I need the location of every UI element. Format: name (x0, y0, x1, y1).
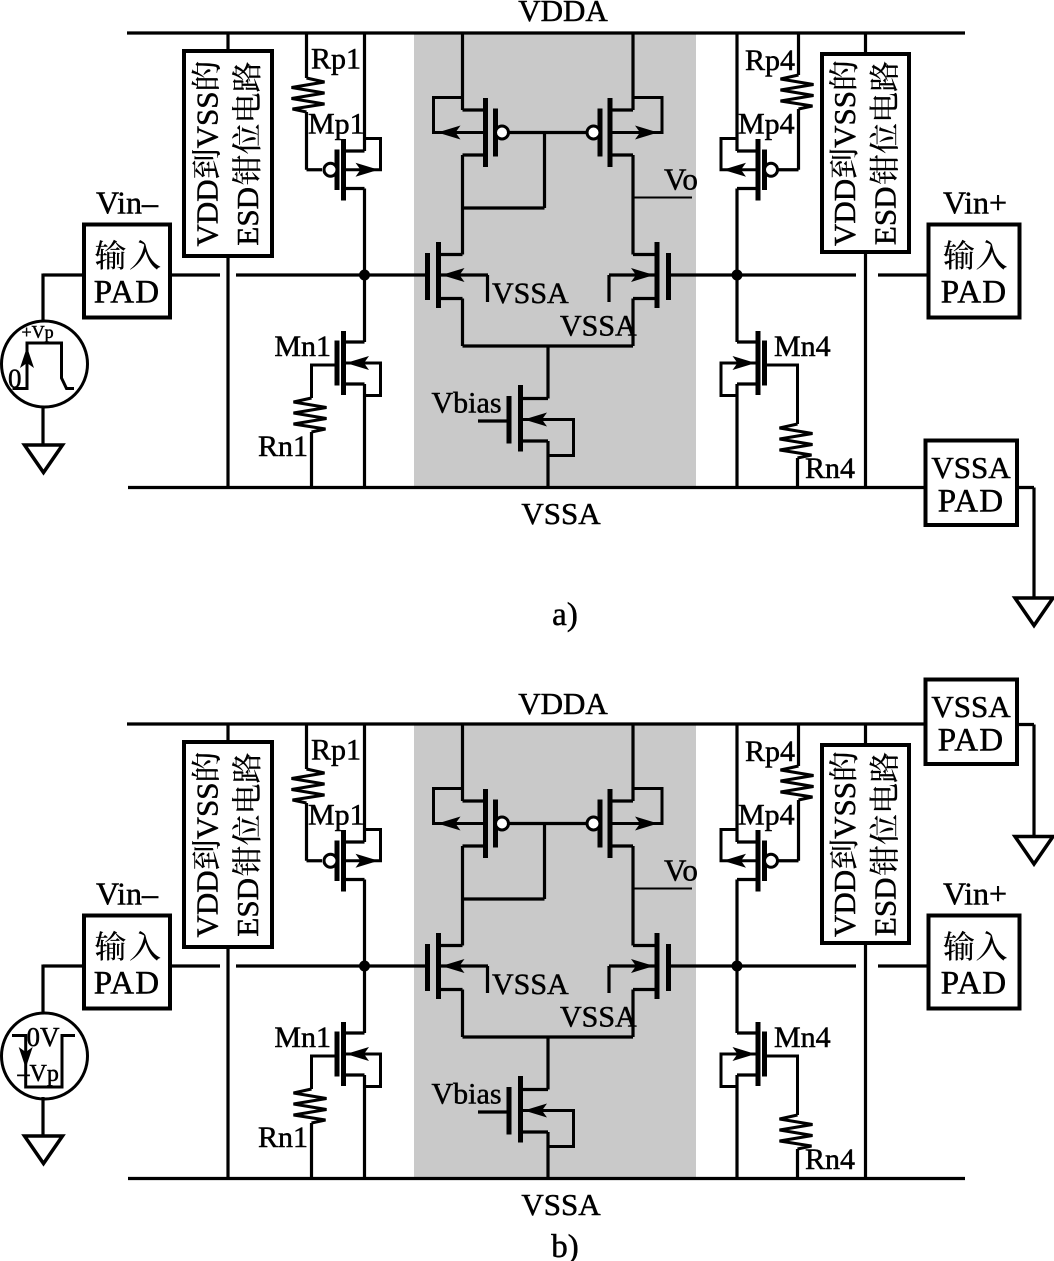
transistor Mn1 (a) (344, 340, 365, 343)
wire diff right source (a) (631, 299, 634, 347)
wire source to ground (a) (41, 406, 44, 445)
wire source to ground (b) (41, 1097, 44, 1136)
ground under VSSA pad (b) (1015, 837, 1053, 865)
wire PMOS right source to VDDA (b) (631, 724, 634, 801)
wire PMOS right source to VDDA (a) (631, 33, 634, 110)
transistor PMOS mirror left (b) (463, 799, 486, 802)
svg-text:VSSA: VSSA (521, 1187, 601, 1222)
svg-text:Mp4: Mp4 (738, 799, 795, 832)
input pad box Vin+ (b) (929, 916, 1020, 1009)
node Vo (a) (633, 197, 692, 199)
wire VSSA rail (b) (128, 1177, 965, 1180)
svg-text:Mp1: Mp1 (308, 108, 365, 141)
transistor diff pair left (b) (439, 944, 463, 947)
wire Mn1 drain to input node (b) (363, 966, 366, 1033)
transistor Mp1 (b) (344, 840, 365, 843)
ground under source (a) (25, 445, 63, 473)
svg-text:VSS: VSS (827, 91, 862, 148)
svg-text:ESD: ESD (868, 187, 903, 246)
wire Mn4 drain to input node (b) (735, 966, 738, 1033)
svg-text:Rn4: Rn4 (805, 1143, 855, 1176)
wire Mn1 drain to input node (a) (363, 275, 366, 342)
svg-text:ESD: ESD (868, 878, 903, 937)
svg-text:b): b) (551, 1229, 579, 1261)
svg-text:VSSA: VSSA (560, 1001, 637, 1034)
wire input line Vin+ (b) (669, 964, 857, 967)
wire diff left source (a) (461, 299, 464, 347)
resistor Rn4 (a) (765, 365, 798, 424)
svg-text:VDDA: VDDA (518, 686, 608, 721)
wire ESD clamp right to VSSA (a) (864, 252, 867, 488)
svg-text:PAD: PAD (94, 966, 161, 1002)
ground under source (b) (25, 1136, 63, 1164)
svg-text:Rp4: Rp4 (745, 735, 795, 768)
svg-text:0V: 0V (27, 1022, 61, 1052)
svg-text:ESD: ESD (230, 187, 265, 246)
svg-text:PAD: PAD (941, 966, 1008, 1002)
svg-text:VDD: VDD (190, 870, 225, 937)
ESD clamp box right (b) (822, 745, 909, 943)
amplifier core shaded region (a) (414, 32, 696, 488)
svg-text:ESD: ESD (230, 878, 265, 937)
svg-text:VSSA: VSSA (492, 968, 569, 1001)
svg-text:Vin–: Vin– (96, 876, 159, 912)
resistor Rn1 (b) (312, 1056, 338, 1089)
svg-text:VDD: VDD (827, 870, 862, 937)
svg-text:Vin+: Vin+ (943, 876, 1007, 912)
wire Mn4 source to VSSA (a) (735, 384, 738, 488)
ESD clamp box right (a) (822, 54, 909, 252)
svg-text:–Vp: –Vp (17, 1061, 59, 1087)
wire VSSA pad to ground (a) (1017, 486, 1034, 489)
wire ESD clamp left to VSSA (a) (226, 256, 229, 488)
svg-text:Mn4: Mn4 (774, 1021, 831, 1054)
wire diff left source (b) (461, 990, 464, 1038)
svg-text:Rp1: Rp1 (311, 43, 361, 76)
wire common source (a) (463, 344, 634, 347)
pulse source +Vp (a) (2, 321, 88, 407)
svg-text:Rp1: Rp1 (311, 734, 361, 767)
wire tail source to VSSA (a) (546, 441, 549, 488)
node junction dot right (a) (732, 270, 743, 281)
svg-text:VSSA: VSSA (492, 277, 569, 310)
svg-text:PAD: PAD (938, 484, 1005, 520)
wire VDDA to ESD clamp left (a) (226, 33, 229, 51)
transistor diff pair right (a) (633, 253, 657, 256)
wire input PAD to source (b) (43, 964, 84, 967)
wire Mp1 drain to input node (a) (363, 189, 366, 276)
wire PMOS left drain (b) (461, 846, 464, 946)
svg-text:Mp4: Mp4 (738, 108, 795, 141)
node junction dot left (b) (359, 961, 370, 972)
node junction dot left (a) (359, 270, 370, 281)
wire diff right source (b) (631, 990, 634, 1038)
transistor Mn4 (b) (737, 1031, 758, 1034)
svg-text:VDD: VDD (190, 179, 225, 246)
svg-text:PAD: PAD (938, 723, 1005, 759)
node junction dot right (b) (732, 961, 743, 972)
resistor Rp1 (b) (305, 724, 308, 769)
wire VDDA to ESD clamp left (b) (226, 724, 229, 742)
wire Mp4 drain to input node (b) (735, 880, 738, 967)
svg-text:VSSA: VSSA (931, 450, 1011, 485)
transistor diff pair right (b) (633, 944, 657, 947)
input pad box Vin- (a) (84, 225, 170, 318)
svg-text:PAD: PAD (94, 275, 161, 311)
wire ESD clamp left to VSSA (b) (226, 947, 229, 1179)
wire Mn1 source to VSSA (b) (363, 1075, 366, 1179)
wire PMOS right drain / output (a) (631, 155, 634, 255)
wire tail source to VSSA (b) (546, 1132, 549, 1179)
resistor Rn4 (b) (765, 1056, 798, 1115)
resistor Rp4 (a) (797, 33, 800, 75)
wire PMOS left source to VDDA (b) (461, 724, 464, 801)
transistor diff pair left (a) (439, 253, 463, 256)
transistor Mn1 (b) (344, 1031, 365, 1034)
wire PMOS left drain (a) (461, 155, 464, 255)
wire Mp1 source to VDDA (b) (363, 724, 366, 842)
wire Mn4 drain to input node (a) (735, 275, 738, 342)
wire Mp4 source to VDDA (b) (735, 724, 738, 842)
svg-text:Mn1: Mn1 (274, 1021, 331, 1054)
svg-text:VDDA: VDDA (518, 0, 608, 28)
wire Mp1 source to VDDA (a) (363, 33, 366, 151)
svg-text:VSSA: VSSA (521, 496, 601, 531)
wire Mp4 drain to input node (a) (735, 189, 738, 276)
svg-text:Vbias: Vbias (432, 1078, 502, 1111)
transistor tail Vbias (b) (521, 1088, 549, 1091)
wire VDDA to ESD clamp right (a) (864, 33, 867, 54)
svg-text:Mn4: Mn4 (774, 330, 831, 363)
wire VDDA rail (a) (127, 31, 965, 34)
svg-text:VSS: VSS (190, 783, 225, 840)
input pad box Vin+ (a) (929, 225, 1020, 318)
svg-text:Rn4: Rn4 (805, 452, 855, 485)
svg-text:Vin–: Vin– (96, 185, 159, 221)
svg-text:VSSA: VSSA (560, 310, 637, 343)
resistor Rn1 (a) (312, 365, 338, 398)
wire Mp1 drain to input node (b) (363, 880, 366, 967)
wire Mn1 source to VSSA (a) (363, 384, 366, 488)
transistor PMOS mirror left (a) (463, 108, 486, 111)
VSSA pad box (a) (926, 441, 1018, 526)
wire input line Vin- (b) (170, 964, 220, 967)
wire ESD clamp right to VSSA (b) (864, 943, 867, 1179)
transistor Mn4 (a) (737, 340, 758, 343)
input pad box Vin- (b) (84, 916, 170, 1009)
wire VSSA rail (a) (128, 486, 926, 489)
wire PMOS right drain / output (b) (631, 846, 634, 946)
transistor Mp4 (a) (737, 149, 758, 152)
transistor Mp4 (b) (737, 840, 758, 843)
amplifier core shaded region (b) (414, 723, 696, 1179)
svg-text:VSS: VSS (827, 782, 862, 839)
svg-text:Vbias: Vbias (432, 387, 502, 420)
transistor PMOS mirror right (a) (610, 108, 633, 111)
svg-text:Mp1: Mp1 (308, 799, 365, 832)
wire VDDA rail (b) (127, 722, 926, 725)
wire gate tie of mirror pair (b) (509, 822, 587, 825)
svg-text:VDD: VDD (827, 179, 862, 246)
transistor PMOS mirror right (b) (610, 799, 633, 802)
wire input line Vin+ (a) (669, 273, 857, 276)
VSSA pad box (b) (926, 680, 1018, 765)
svg-text:Vo: Vo (664, 853, 698, 888)
wire gate tie of mirror pair (a) (509, 131, 587, 134)
svg-text:Rn1: Rn1 (258, 1121, 308, 1154)
svg-text:Rn1: Rn1 (258, 430, 308, 463)
wire Mn4 source to VSSA (b) (735, 1075, 738, 1179)
svg-text:Vin+: Vin+ (943, 185, 1007, 221)
svg-text:VSSA: VSSA (931, 689, 1011, 724)
svg-text:PAD: PAD (941, 275, 1008, 311)
svg-text:Mn1: Mn1 (274, 330, 331, 363)
wire VDDA to ESD clamp right (b) (864, 724, 867, 745)
pulse source -Vp (b) (2, 1013, 88, 1099)
ground under VSSA pad (a) (1015, 598, 1053, 626)
resistor Rp4 (b) (797, 724, 800, 766)
svg-text:Vo: Vo (664, 162, 698, 197)
svg-text:VSS: VSS (190, 92, 225, 149)
wire PMOS left source to VDDA (a) (461, 33, 464, 110)
ESD clamp box left (b) (184, 742, 272, 947)
svg-text:+Vp: +Vp (22, 322, 54, 342)
svg-text:a): a) (552, 597, 578, 633)
ESD clamp box left (a) (184, 51, 272, 256)
wire input PAD to source (a) (43, 273, 84, 276)
wire common source (b) (463, 1035, 634, 1038)
wire Mp4 source to VDDA (a) (735, 33, 738, 151)
transistor Mp1 (a) (344, 149, 365, 152)
wire input line Vin- (a) (170, 273, 220, 276)
resistor Rp1 (a) (305, 33, 308, 78)
wire VSSA pad to ground (b) (1017, 723, 1034, 726)
transistor tail Vbias (a) (521, 397, 549, 400)
node Vo (b) (633, 888, 692, 890)
svg-text:Rp4: Rp4 (745, 44, 795, 77)
